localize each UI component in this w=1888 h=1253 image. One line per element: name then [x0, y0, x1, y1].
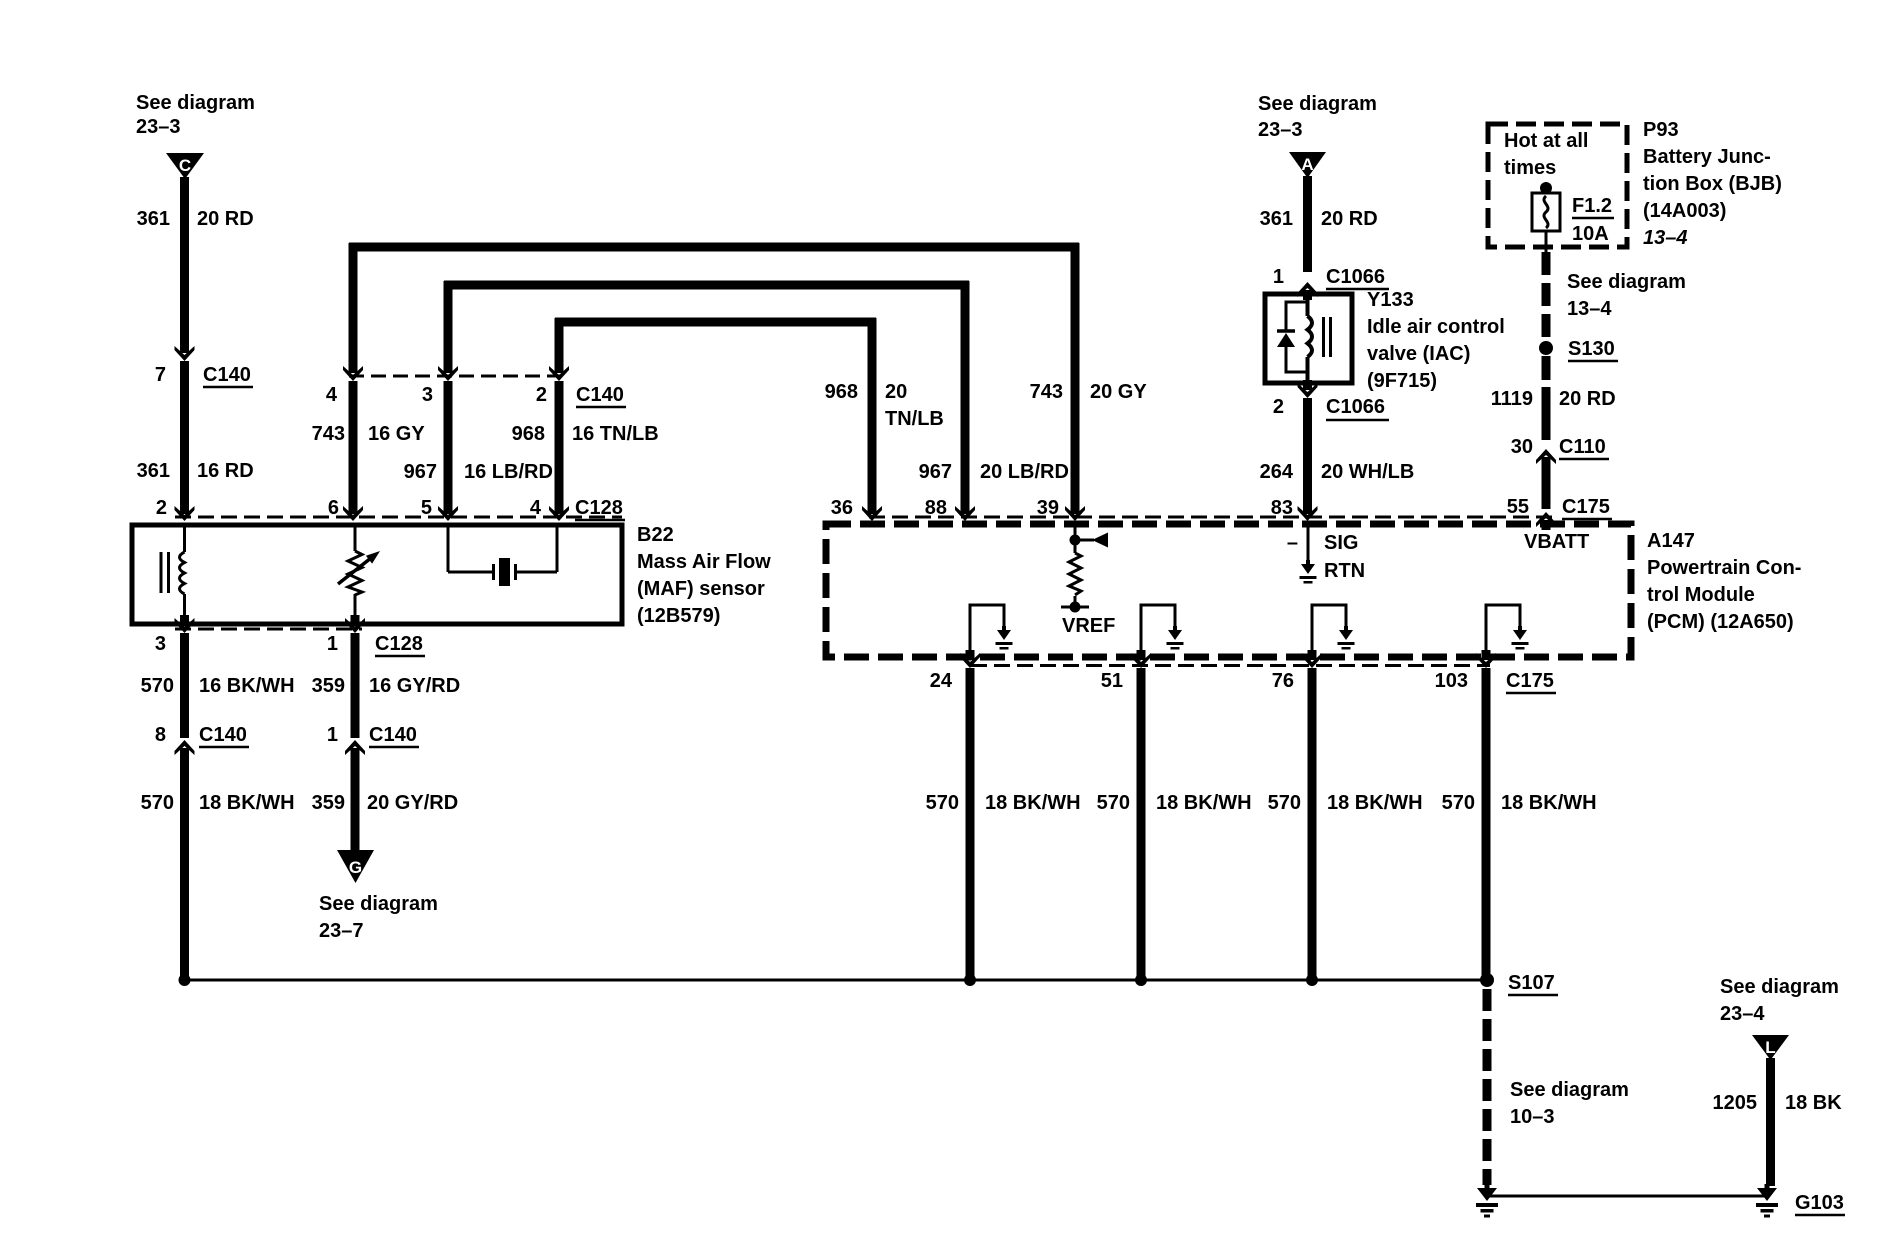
- svg-text:See diagram: See diagram: [136, 92, 255, 114]
- connector arrow C140 pin 3: [438, 363, 458, 381]
- svg-text:76: 76: [1272, 670, 1294, 692]
- svg-text:103: 103: [1435, 670, 1468, 692]
- svg-text:16 TN/LB: 16 TN/LB: [572, 423, 659, 445]
- svg-text:359: 359: [312, 792, 345, 814]
- labels: PCM top pins 36 88 39 83 55 C175: [831, 496, 1612, 519]
- svg-text:16 GY: 16 GY: [368, 423, 425, 445]
- MAF variable resistor: [338, 527, 380, 623]
- svg-text:See diagram: See diagram: [1258, 93, 1377, 115]
- label: 967 16 LB/RD: [404, 461, 553, 483]
- labels: PCM bottom pins 24 51 76 103 C175: [930, 670, 1556, 693]
- IAC valve box Y133: [1265, 294, 1352, 383]
- svg-text:See diagram: See diagram: [1720, 976, 1839, 998]
- label: 1119 20 RD: [1491, 388, 1616, 410]
- wire: MAF pin 1 to connector G (circuit 359): [351, 633, 360, 851]
- svg-text:359: 359: [312, 675, 345, 697]
- svg-text:1: 1: [327, 724, 338, 746]
- label: 8 C140: [155, 724, 249, 747]
- svg-text:361: 361: [1260, 208, 1293, 230]
- label: 570 16 BK/WH: [141, 675, 295, 697]
- svg-text:2: 2: [1273, 396, 1284, 418]
- svg-text:G: G: [349, 858, 362, 877]
- svg-text:16 GY/RD: 16 GY/RD: [369, 675, 460, 697]
- wire: PCM pin 24 to S107: [966, 668, 975, 980]
- wire: bus 967/968 (MAF pin 5 to PCM pin 88): [444, 281, 969, 514]
- MAF coil element: [160, 527, 185, 623]
- PCM internal ground flag pin 76: [1312, 605, 1355, 655]
- connector arrow C128 pin 5: [438, 503, 458, 521]
- label: B22 Mass Air Flow (MAF) sensor (12B579): [637, 524, 771, 627]
- svg-text:20 WH/LB: 20 WH/LB: [1321, 461, 1414, 483]
- labels: C128 pins 3 1: [155, 633, 425, 656]
- connector C128 dashed line above MAF: [175, 516, 622, 519]
- label: 264 20 WH/LB: [1260, 461, 1415, 483]
- label: 359 16 GY/RD: [312, 675, 461, 697]
- svg-text:C175: C175: [1506, 670, 1554, 692]
- label: 570 18 BK/WH: [1442, 792, 1597, 814]
- connector C128 dashed line below MAF: [175, 628, 362, 631]
- fuse F1.2 10A: [1532, 182, 1614, 245]
- label: 570 18 BK/WH: [1097, 792, 1252, 814]
- ground wire to G103: [1487, 1195, 1767, 1198]
- svg-text:C1066: C1066: [1326, 396, 1385, 418]
- connector arrow C128 pin 3: [175, 615, 195, 633]
- splice S107 wire: [185, 979, 1488, 982]
- label: 967 20 LB/RD (right): [919, 461, 1069, 483]
- note: see diagram 23-7: [319, 893, 438, 942]
- battery junction box P93 (dashed): [1488, 124, 1627, 247]
- svg-text:C140: C140: [203, 364, 251, 386]
- svg-text:(MAF) sensor: (MAF) sensor: [637, 578, 765, 600]
- svg-text:C140: C140: [199, 724, 247, 746]
- junction S107 at pin 51 wire: [1135, 974, 1147, 986]
- connector arrow C110 pin 30: [1536, 449, 1556, 467]
- svg-text:times: times: [1504, 157, 1556, 179]
- svg-text:(12B579): (12B579): [637, 605, 720, 627]
- svg-text:3: 3: [422, 384, 433, 406]
- svg-text:20 RD: 20 RD: [1559, 388, 1616, 410]
- svg-text:C110: C110: [1559, 436, 1606, 458]
- label: Y133 Idle air control valve (IAC) (9F715): [1367, 289, 1505, 392]
- svg-text:G103: G103: [1795, 1192, 1844, 1214]
- svg-text:(14A003): (14A003): [1643, 200, 1726, 222]
- wire: PCM pin 76 to S107: [1308, 668, 1317, 980]
- svg-text:B22: B22: [637, 524, 674, 546]
- svg-text:16 BK/WH: 16 BK/WH: [199, 675, 295, 697]
- wire: connector C to MAF pin 2 (circuit 361): [180, 177, 189, 514]
- connector arrow C128 pin 4: [549, 503, 569, 521]
- connector arrow C1066 pin 2: [1298, 380, 1318, 398]
- note: see diagram 10-3: [1510, 1079, 1629, 1128]
- connector arrow C175 pin 103: [1476, 650, 1496, 668]
- svg-text:L: L: [1765, 1038, 1775, 1057]
- VREF network inside PCM: [1061, 524, 1115, 637]
- svg-text:C140: C140: [369, 724, 417, 746]
- svg-text:18 BK/WH: 18 BK/WH: [1501, 792, 1597, 814]
- label: 1205 18 BK: [1713, 1092, 1843, 1114]
- connector G: [337, 850, 374, 883]
- svg-text:(PCM) (12A650): (PCM) (12A650): [1647, 611, 1794, 633]
- svg-text:8: 8: [155, 724, 166, 746]
- svg-text:–: –: [1287, 532, 1298, 554]
- svg-text:23–4: 23–4: [1720, 1003, 1765, 1025]
- svg-text:7: 7: [155, 364, 166, 386]
- svg-text:570: 570: [1097, 792, 1130, 814]
- svg-text:C140: C140: [576, 384, 624, 406]
- PCM module box A147: [826, 524, 1631, 657]
- connector arrow C175 pin 51: [1131, 650, 1151, 668]
- svg-text:967: 967: [404, 461, 437, 483]
- svg-text:967: 967: [919, 461, 952, 483]
- label: 743 20 GY (right): [1030, 381, 1148, 403]
- label: 1 C1066: [1273, 266, 1389, 289]
- label: 570 18 BK/WH: [926, 792, 1081, 814]
- splice S130: [1539, 341, 1553, 355]
- svg-text:18 BK/WH: 18 BK/WH: [1327, 792, 1423, 814]
- SIG RTN ground inside PCM: [1287, 524, 1365, 584]
- PCM internal ground flag pin 24: [970, 605, 1013, 655]
- IAC clamp diode: [1277, 302, 1308, 372]
- label: 968 16 TN/LB: [512, 423, 659, 445]
- svg-text:10–3: 10–3: [1510, 1106, 1555, 1128]
- svg-text:361: 361: [137, 460, 170, 482]
- wire: A to IAC pin 1 (circuit 361): [1303, 176, 1312, 272]
- svg-text:264: 264: [1260, 461, 1294, 483]
- junction S107 at pin 24 wire: [964, 974, 976, 986]
- connector arrow C128 pin 2: [175, 503, 195, 521]
- svg-text:24: 24: [930, 670, 953, 692]
- note: see diagram 23-4: [1720, 976, 1839, 1025]
- connector arrow C175 pin 76: [1302, 650, 1322, 668]
- connector arrow C175 pin 36: [862, 503, 882, 521]
- svg-text:36: 36: [831, 497, 853, 519]
- svg-text:23–3: 23–3: [1258, 119, 1303, 141]
- label: S130: [1568, 338, 1618, 361]
- connector arrow C128 pin 6: [343, 503, 363, 521]
- svg-text:20 RD: 20 RD: [1321, 208, 1378, 230]
- wire: bus 968 (MAF pin 4 to PCM pin 36): [555, 318, 876, 514]
- svg-text:570: 570: [141, 792, 174, 814]
- svg-text:23–7: 23–7: [319, 920, 364, 942]
- svg-text:F1.2: F1.2: [1572, 195, 1612, 217]
- svg-text:A: A: [1301, 155, 1313, 174]
- connector L: [1752, 1035, 1789, 1060]
- svg-text:13–4: 13–4: [1643, 227, 1688, 249]
- svg-text:55: 55: [1507, 496, 1529, 518]
- note: see diagram 13-4: [1567, 271, 1686, 320]
- svg-text:16 RD: 16 RD: [197, 460, 254, 482]
- connector C: [166, 153, 204, 179]
- connector arrow C175 pin 88: [955, 503, 975, 521]
- label: 361 20 RD: [137, 208, 254, 230]
- connector arrow C175 pin 83: [1298, 503, 1318, 521]
- svg-text:1205: 1205: [1713, 1092, 1758, 1114]
- svg-text:C: C: [179, 156, 191, 175]
- note: see diagram 23-3 (top left): [136, 92, 255, 138]
- svg-text:18 BK: 18 BK: [1785, 1092, 1842, 1114]
- wire: PCM pin 103 to S107: [1482, 668, 1491, 980]
- connector arrow C175 pin 24: [960, 650, 980, 668]
- svg-text:C128: C128: [375, 633, 423, 655]
- ground G103 right: [1756, 1184, 1778, 1218]
- svg-text:S130: S130: [1568, 338, 1615, 360]
- connector A: [1289, 152, 1326, 178]
- connector arrow C1066 pin 1: [1298, 282, 1318, 300]
- svg-text:See diagram: See diagram: [1510, 1079, 1629, 1101]
- label: 2 C1066: [1273, 396, 1389, 420]
- label: P93 Battery Junction Box (BJB) (14A003) 13-4: [1643, 119, 1782, 249]
- svg-text:valve (IAC): valve (IAC): [1367, 343, 1470, 365]
- svg-text:570: 570: [141, 675, 174, 697]
- svg-text:23–3: 23–3: [136, 116, 181, 138]
- svg-text:VREF: VREF: [1062, 615, 1115, 637]
- svg-text:83: 83: [1271, 497, 1293, 519]
- svg-text:2: 2: [536, 384, 547, 406]
- junction at S107 left: [179, 974, 191, 986]
- svg-text:4: 4: [326, 384, 338, 406]
- svg-text:570: 570: [926, 792, 959, 814]
- wire: PCM pin 51 to S107: [1137, 668, 1146, 980]
- MAF capacitor element: [448, 527, 557, 586]
- label: 1 C140: [327, 724, 419, 747]
- svg-text:tion Box (BJB): tion Box (BJB): [1643, 173, 1782, 195]
- connector arrow C140 pin 7: [175, 343, 195, 361]
- svg-text:39: 39: [1037, 497, 1059, 519]
- svg-text:51: 51: [1101, 670, 1123, 692]
- svg-text:TN/LB: TN/LB: [885, 408, 944, 430]
- label: A147 Powertrain Control Module (PCM) (12A650): [1647, 530, 1801, 633]
- junction S107 at pin 76 wire: [1306, 974, 1318, 986]
- connector arrow C140 pin 8: [175, 740, 195, 758]
- wire: fuse to S130 (dashed continuation): [1545, 231, 1548, 252]
- svg-text:1: 1: [327, 633, 338, 655]
- svg-text:See diagram: See diagram: [319, 893, 438, 915]
- label: 968 20 TN/LB (right): [825, 381, 944, 430]
- svg-text:Powertrain Con-: Powertrain Con-: [1647, 557, 1801, 579]
- svg-text:A147: A147: [1647, 530, 1695, 552]
- label: 359 20 GY/RD: [312, 792, 459, 814]
- connector arrow C140 pin 1: [345, 740, 365, 758]
- svg-text:C1066: C1066: [1326, 266, 1385, 288]
- label: 361 16 RD: [137, 460, 254, 482]
- svg-text:968: 968: [512, 423, 545, 445]
- svg-text:20 GY: 20 GY: [1090, 381, 1147, 403]
- svg-text:(9F715): (9F715): [1367, 370, 1437, 392]
- label: S107: [1508, 972, 1558, 995]
- wire: S107 to G103 (dashed): [1483, 989, 1492, 1185]
- svg-text:10A: 10A: [1572, 223, 1609, 245]
- svg-text:20 GY/RD: 20 GY/RD: [367, 792, 458, 814]
- svg-text:361: 361: [137, 208, 170, 230]
- svg-text:18 BK/WH: 18 BK/WH: [1156, 792, 1252, 814]
- connector arrow C128 pin 1: [345, 615, 365, 633]
- svg-text:30: 30: [1511, 436, 1533, 458]
- svg-text:3: 3: [155, 633, 166, 655]
- label: 570 18 BK/WH: [141, 792, 295, 814]
- svg-text:1: 1: [1273, 266, 1284, 288]
- connector C175 dashed line top: [869, 516, 1552, 519]
- svg-text:trol Module: trol Module: [1647, 584, 1755, 606]
- wire: bus 743 (MAF pin 6 to PCM pin 39): [349, 243, 1079, 514]
- svg-text:88: 88: [925, 497, 947, 519]
- labels: C128 pins 6 5 4: [328, 497, 625, 520]
- connector arrow C140 pin 4: [343, 363, 363, 381]
- connector C175 dashed line bottom: [971, 664, 1490, 667]
- svg-text:C175: C175: [1562, 496, 1610, 518]
- svg-text:18 BK/WH: 18 BK/WH: [985, 792, 1081, 814]
- svg-text:S107: S107: [1508, 972, 1555, 994]
- connector arrow C175 pin 39: [1065, 503, 1085, 521]
- PCM internal ground flag pin 51: [1141, 605, 1184, 655]
- splice S107 junction: [1480, 973, 1494, 987]
- connector arrow C175 pin 55: [1536, 512, 1556, 530]
- svg-text:743: 743: [312, 423, 345, 445]
- svg-text:570: 570: [1268, 792, 1301, 814]
- svg-text:P93: P93: [1643, 119, 1679, 141]
- svg-text:Hot at all: Hot at all: [1504, 130, 1588, 152]
- svg-text:20: 20: [885, 381, 907, 403]
- svg-text:Battery Junc-: Battery Junc-: [1643, 146, 1771, 168]
- svg-text:1119: 1119: [1491, 388, 1533, 410]
- svg-text:20 RD: 20 RD: [197, 208, 254, 230]
- svg-text:SIG: SIG: [1324, 532, 1358, 554]
- wire: IAC pin 2 to PCM pin 83 (circuit 264): [1303, 398, 1312, 514]
- svg-text:18 BK/WH: 18 BK/WH: [199, 792, 295, 814]
- label: 361 20 RD: [1260, 208, 1378, 230]
- svg-text:VBATT: VBATT: [1524, 531, 1589, 553]
- wire: MAF pin 3 to S107 (circuit 570): [180, 633, 189, 980]
- MAF sensor box B22: [132, 525, 622, 624]
- label: 30 C110: [1511, 436, 1609, 459]
- wire: S130 to PCM pin 55 (circuit 1119): [1542, 356, 1551, 509]
- svg-text:Idle air control: Idle air control: [1367, 316, 1505, 338]
- svg-text:2: 2: [156, 497, 167, 519]
- svg-text:743: 743: [1030, 381, 1063, 403]
- label: 7 C140: [155, 364, 253, 387]
- svg-text:20 LB/RD: 20 LB/RD: [980, 461, 1069, 483]
- IAC coil: [1308, 296, 1333, 381]
- connector C140 dashed line: [349, 375, 563, 378]
- svg-text:RTN: RTN: [1324, 560, 1365, 582]
- svg-text:Mass Air Flow: Mass Air Flow: [637, 551, 771, 573]
- svg-text:968: 968: [825, 381, 858, 403]
- label: 743 16 GY: [312, 423, 426, 445]
- PCM internal ground flag pin 103: [1486, 605, 1529, 655]
- label: 570 18 BK/WH: [1268, 792, 1423, 814]
- label: G103: [1795, 1192, 1845, 1215]
- svg-text:13–4: 13–4: [1567, 298, 1612, 320]
- label: Hot at all times: [1504, 130, 1588, 179]
- labels: C140 pins 4 3 2: [326, 384, 626, 407]
- ground G103 left: [1476, 1184, 1498, 1218]
- wire: L to G103 (circuit 1205): [1766, 1058, 1775, 1186]
- svg-text:Y133: Y133: [1367, 289, 1414, 311]
- svg-text:16 LB/RD: 16 LB/RD: [464, 461, 553, 483]
- connector arrow C140 pin 2: [549, 363, 569, 381]
- svg-text:570: 570: [1442, 792, 1475, 814]
- svg-text:See diagram: See diagram: [1567, 271, 1686, 293]
- note: see diagram 23-3 (right): [1258, 93, 1377, 141]
